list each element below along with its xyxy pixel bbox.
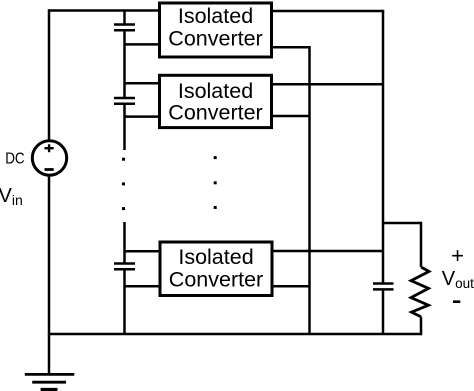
svg-text:+: +: [451, 243, 464, 268]
converter U3 label: [169, 245, 263, 291]
wire: chain below C3 to bottom rail: [123, 269, 126, 334]
wire: output minus rail vertical: [308, 47, 311, 334]
svg-text:Isolated: Isolated: [178, 4, 253, 28]
svg-text:DC: DC: [5, 150, 25, 167]
wire: converter 3 output+ to right rail: [272, 250, 384, 253]
wire: input chain vertical, top rail to C1: [123, 11, 126, 25]
capacitor C2 top plate: [114, 97, 135, 100]
wire: converter 2 input+ tap: [125, 82, 160, 85]
wire: resistor bottom lead: [420, 317, 423, 336]
wire: converter 2 output- to minus rail: [272, 115, 310, 118]
wire: converter 3 input- tap: [125, 285, 161, 288]
capacitor C1 bottom plate: [114, 29, 135, 32]
converter U3 box: [160, 242, 272, 296]
svg-text:Vin: Vin: [0, 185, 23, 208]
label output minus: [453, 300, 460, 303]
svg-text:Converter: Converter: [168, 26, 262, 50]
ellipsis dots middle: [214, 156, 217, 209]
wire: converter 3 input+ tap: [125, 250, 161, 253]
wire: chain from C1 to C2: [123, 30, 126, 98]
wire: converter 1 output- to minus rail: [272, 46, 311, 49]
wire: left rail upper segment: [48, 9, 51, 141]
wire: left rail lower segment below source: [48, 175, 51, 335]
wire: branch to load resistor top: [383, 222, 421, 225]
capacitor C2 bottom plate: [114, 102, 135, 105]
DC source circle: [32, 141, 66, 175]
resistor R load zigzag: [411, 267, 429, 317]
capacitor C3 bottom plate: [114, 268, 135, 271]
capacitor C1 top plate: [114, 23, 135, 26]
wire: output plus rail vertical upper: [382, 11, 385, 284]
svg-text:Isolated: Isolated: [178, 245, 253, 269]
svg-text:Vout: Vout: [442, 268, 474, 291]
DC source minus sign: [45, 168, 54, 171]
svg-text:Converter: Converter: [169, 267, 263, 291]
wire: converter 2 output+ to right rail: [272, 83, 384, 86]
converter U2 box: [160, 75, 272, 127]
converter U1 box: [160, 3, 272, 57]
ellipsis dots left chain: [122, 158, 125, 210]
wire: converter 1 output+ to right rail: [272, 10, 385, 13]
converter U1 label: [168, 4, 262, 51]
wire: chain from ellipsis to C3: [123, 222, 126, 264]
wire: converter 3 output- to minus rail: [272, 285, 310, 288]
wire: chain below C2 to ellipsis: [123, 104, 126, 150]
wire: plus rail below Cout to bottom rail: [382, 289, 385, 334]
wire: resistor top lead: [420, 222, 423, 267]
wire: ground stem: [48, 334, 51, 374]
DC source plus sign: [45, 144, 54, 152]
converter U2 label: [168, 79, 262, 124]
capacitor Cout bottom plate: [373, 288, 394, 291]
capacitor Cout top plate: [373, 282, 394, 285]
capacitor C3 top plate: [114, 262, 135, 265]
ground symbol bars: [25, 374, 75, 389]
wire: top rail from source to converter 1 input+: [49, 9, 160, 12]
wire: bottom ground rail: [49, 333, 421, 336]
svg-text:Converter: Converter: [168, 100, 262, 124]
wire: converter 1 input- tap: [125, 43, 160, 46]
wire: converter 2 input- tap: [125, 115, 160, 118]
